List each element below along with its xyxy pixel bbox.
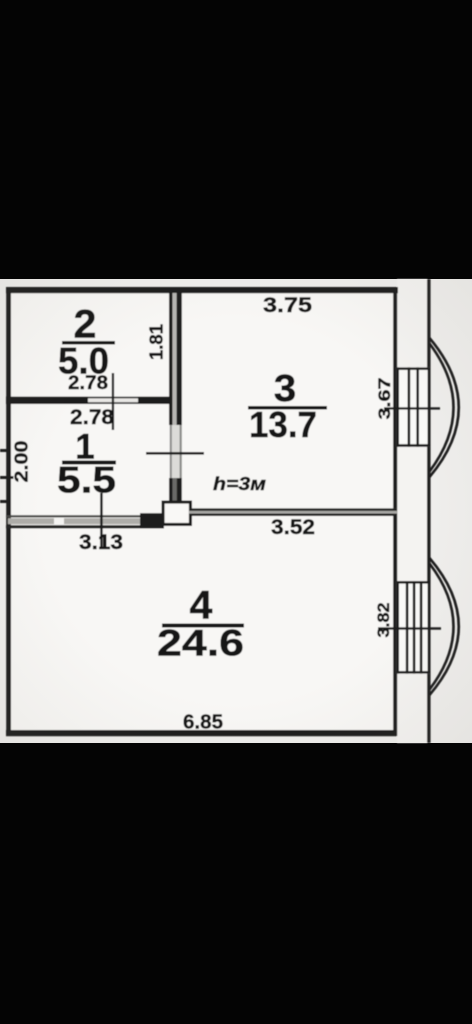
room 2 fraction line <box>62 341 115 345</box>
extension line through 3.13 label <box>100 493 103 547</box>
right wall cavity fill <box>397 279 429 743</box>
room 1 fraction line <box>62 461 116 465</box>
wall between room 3 and room 4 <box>189 508 397 516</box>
shaft square at wall junction <box>162 501 193 527</box>
photo paper background <box>0 279 472 743</box>
lower balcony door swing arc (double) <box>430 558 459 695</box>
left wall tick (bottom of 2.00) <box>0 500 11 503</box>
wall between room 2 and room 3 (double line, gray core) <box>169 293 182 503</box>
bottom exterior wall <box>6 730 397 736</box>
upper window dimension line <box>384 407 440 409</box>
door opening in wall between room 1 and room 3 <box>170 425 182 478</box>
lower window dimension line <box>378 627 441 629</box>
right exterior wall outer line <box>427 279 431 743</box>
left wall tick (middle of 2.00) <box>0 476 14 479</box>
wall between room 2 and room 1 <box>6 397 172 404</box>
upper balcony door swing arc (double) <box>430 338 459 477</box>
wall between room 1 and room 4 (window band) <box>6 513 164 528</box>
extension line through 2.78 labels <box>112 373 114 430</box>
left exterior wall <box>6 287 11 736</box>
lower window assembly <box>396 581 430 674</box>
photo vignette <box>0 279 472 743</box>
dimension tick across room1/room3 door <box>146 452 204 455</box>
building interior fill <box>8 290 396 733</box>
left wall tick (top of 2.00) <box>0 449 11 452</box>
right exterior wall inner line <box>393 290 397 736</box>
room 3 fraction line <box>248 406 327 410</box>
top exterior wall <box>6 287 398 293</box>
bottom letterbox bar <box>0 743 472 1024</box>
upper window assembly <box>396 367 430 446</box>
opening in wall between room 2 and room 1 <box>88 397 138 404</box>
room 4 fraction line <box>162 624 244 628</box>
top letterbox bar <box>0 0 472 279</box>
